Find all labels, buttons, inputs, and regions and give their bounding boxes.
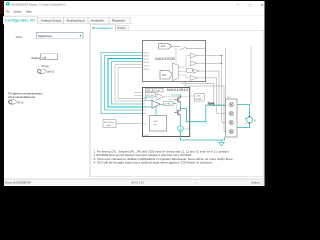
window body xyxy=(4,1,265,186)
wire gray bundle line6 xyxy=(118,68,143,99)
screw terminal 4 xyxy=(229,130,233,134)
svg-text:V: V xyxy=(254,119,256,123)
svg-text:Status: Status xyxy=(251,180,260,184)
svg-text:Picture: Picture xyxy=(118,26,126,30)
LDO block xyxy=(146,93,156,97)
sub tab control panel xyxy=(90,30,264,176)
wire pin DACOUT xyxy=(225,48,227,104)
svg-text:Analog Input: Analog Input xyxy=(66,18,85,22)
wire pin AO1 xyxy=(197,55,222,57)
wire pin CMP xyxy=(199,71,219,105)
U1 right pin wires xyxy=(197,48,226,122)
24V power box xyxy=(103,120,116,128)
wire teal to source V1 top xyxy=(237,105,250,117)
svg-text:Logic: Logic xyxy=(156,90,161,92)
screw terminal 1 xyxy=(229,103,233,107)
svg-text:Reading: Reading xyxy=(32,56,41,60)
notes xyxy=(94,149,234,164)
screw terminal 2 xyxy=(229,112,233,116)
svg-text:–: – xyxy=(237,2,240,7)
block B1 xyxy=(186,68,192,72)
switch S1 xyxy=(172,46,206,49)
menu bar xyxy=(6,10,32,14)
wire supply to U2 xyxy=(190,95,195,97)
svg-text:3. If the user chooses to disa: 3. If the user chooses to disable modifi… xyxy=(94,157,234,161)
svg-text:2. MAX22000 will be put into s: 2. MAX22000 will be put into selected mo… xyxy=(94,153,193,157)
IC U1 MAX22000 xyxy=(143,41,206,82)
svg-text:Digital Input: Digital Input xyxy=(38,34,52,38)
dropdown Digital Input xyxy=(37,33,84,39)
svg-text:Load: Load xyxy=(184,129,190,131)
svg-text:Help: Help xyxy=(26,10,32,14)
svg-text:DOI: DOI xyxy=(143,101,147,103)
comparator A3 xyxy=(193,69,199,73)
wire pin AO2 xyxy=(197,62,222,64)
ground xyxy=(219,140,225,146)
svg-text:Device: MAX22000EVKIT: Device: MAX22000EVKIT xyxy=(5,181,32,185)
input stage block xyxy=(145,97,152,100)
svg-text:24V LDO: 24V LDO xyxy=(146,95,154,97)
buffer A4 xyxy=(190,75,197,80)
svg-text:GPIO6: GPIO6 xyxy=(144,69,150,71)
teal internal wires xyxy=(143,104,177,116)
svg-text:Blockdiagram: Blockdiagram xyxy=(92,26,114,30)
wire gray bundle line5 xyxy=(115,65,143,102)
CTRL block xyxy=(164,101,174,105)
junction dots J1-J4 xyxy=(221,55,222,56)
svg-text:with an external digital sourc: with an external digital source xyxy=(8,95,35,99)
svg-text:✕: ✕ xyxy=(261,3,264,7)
mux M1 xyxy=(172,63,178,81)
svg-text:GPIO3: GPIO3 xyxy=(144,59,150,61)
svg-text:MAX22000: MAX22000 xyxy=(155,57,175,61)
app logo xyxy=(6,2,10,6)
svg-text:▢: ▢ xyxy=(249,3,253,7)
U1 pin labels xyxy=(144,52,150,71)
transistor Q1 xyxy=(175,95,181,104)
svg-text:1. For testing CIO, Jumpers JP: 1. For testing CIO, Jumpers JP1, JP2 and… xyxy=(94,149,230,153)
svg-text:DAC: DAC xyxy=(161,45,166,48)
wire teal source V1 bottom return xyxy=(237,123,250,128)
svg-text:SEL: SEL xyxy=(143,107,146,109)
REF block xyxy=(146,88,153,92)
DI Type toggle xyxy=(37,64,54,73)
svg-text:Options: Options xyxy=(14,10,22,14)
wire teal DOI out xyxy=(180,105,225,122)
wire bundle bottom of U1 xyxy=(182,82,226,132)
wire teal bundle line2 xyxy=(105,56,143,111)
description paragraph xyxy=(8,92,42,99)
wire pin AI1 xyxy=(197,78,226,114)
LED driver block xyxy=(150,116,167,132)
logic block xyxy=(154,88,163,92)
svg-text:4. CIO will be brought back in: 4. CIO will be brought back into a defin… xyxy=(94,161,213,165)
svg-text:MAX14914: MAX14914 xyxy=(167,88,188,92)
svg-text:GPIO5: GPIO5 xyxy=(144,66,150,68)
svg-text:–: – xyxy=(245,121,247,125)
wire stub VL xyxy=(134,95,143,97)
status bar xyxy=(4,179,265,186)
wire teal bundle line4 xyxy=(112,62,143,105)
U2 internal wires xyxy=(148,100,177,113)
U1 internal wires xyxy=(172,49,193,78)
dark corner tint xyxy=(0,0,4,14)
wire teal bundle line3 highlighted xyxy=(108,59,143,108)
load indicator L1 xyxy=(178,126,184,132)
svg-text:This allows for conveniently t: This allows for conveniently testing it xyxy=(8,92,42,96)
wire teal bundle U1-U2 line1 xyxy=(101,53,143,114)
buffer A1 xyxy=(190,53,197,58)
svg-text:DAC On: DAC On xyxy=(17,100,24,104)
U2 left pin labels xyxy=(143,98,147,125)
svg-text:GPIO4: GPIO4 xyxy=(144,62,150,64)
main tab strip xyxy=(3,16,133,24)
Reading field xyxy=(32,54,58,60)
svg-text:GPIO1: GPIO1 xyxy=(144,52,150,54)
svg-text:DI Type: DI Type xyxy=(42,64,49,68)
wire 24V to U2 xyxy=(116,123,143,125)
op-amp A6 xyxy=(152,101,161,109)
wire teal load return with ground xyxy=(180,131,224,140)
comparator A5 xyxy=(157,94,164,101)
svg-text:1dh: 1dh xyxy=(42,55,46,59)
svg-text:24V Power: 24V Power xyxy=(104,122,114,124)
IC U2 MAX14914 xyxy=(143,88,190,137)
svg-text:GND: GND xyxy=(107,125,112,127)
svg-text:GPIO2: GPIO2 xyxy=(144,56,150,58)
svg-text:CTRL: CTRL xyxy=(165,104,171,106)
svg-text:GUI V: 1.10: GUI V: 1.10 xyxy=(131,180,144,184)
svg-text:Analysis: Analysis xyxy=(91,18,105,22)
DAC On toggle xyxy=(8,100,24,105)
menu separator xyxy=(4,14,265,16)
window buttons xyxy=(237,2,264,7)
svg-text:Supply: Supply xyxy=(195,99,201,101)
source V1 xyxy=(247,117,253,123)
transistor Q2 xyxy=(174,108,180,117)
24V supply box xyxy=(194,94,204,101)
svg-text:Type 1/3: Type 1/3 xyxy=(46,70,54,74)
svg-text:CIO Mode: CIO Mode xyxy=(16,35,22,39)
wire stub VDD xyxy=(134,92,143,94)
DAC block xyxy=(159,44,172,49)
wire vertical right rail xyxy=(250,46,252,105)
svg-text:ADC: ADC xyxy=(162,74,167,77)
svg-text:Register: Register xyxy=(112,18,125,22)
svg-text:FLT: FLT xyxy=(143,110,146,112)
buffer A2 xyxy=(190,61,197,66)
svg-text:LED: LED xyxy=(154,121,159,123)
svg-text:MAX22000EVKIT Software: 1-Chan: MAX22000EVKIT Software: 1-Channel Config… xyxy=(11,2,66,6)
screw terminal 3 xyxy=(229,121,233,125)
svg-text:File: File xyxy=(6,10,10,14)
bus vertical xyxy=(222,56,226,123)
resize grip xyxy=(260,181,264,185)
svg-text:Analog Output: Analog Output xyxy=(41,18,62,22)
ADC block xyxy=(160,71,172,79)
svg-text:DGND: DGND xyxy=(143,135,149,137)
svg-text:Configurable I/O: Configurable I/O xyxy=(5,18,36,22)
teal drain wires xyxy=(179,104,181,108)
